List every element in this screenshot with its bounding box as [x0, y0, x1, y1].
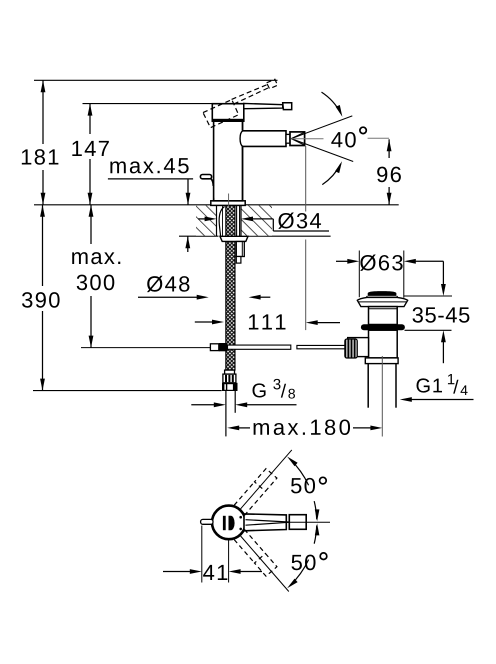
lever grip (top view) [289, 515, 306, 530]
cap thick bottom edge [212, 119, 244, 122]
spout [243, 131, 287, 147]
dimension max.45 [110, 161, 125, 173]
dimension O63 [336, 260, 348, 262]
dashed cap (raised position) [203, 100, 239, 128]
deck top line [34, 204, 399, 206]
lever grip tip [283, 103, 292, 110]
390 bottom reference line [33, 390, 222, 392]
dimension 390 [42, 205, 44, 286]
aerator [290, 132, 305, 146]
lever centerline extension (rotated) [241, 450, 292, 509]
deck hatching left [196, 206, 217, 236]
pop-up rod guide bracket [236, 242, 244, 257]
label G3/8 [253, 383, 266, 397]
tailpiece [367, 364, 369, 408]
faucet body [214, 121, 243, 201]
horizontal pop-up rod [228, 345, 291, 349]
drain body upper [369, 307, 398, 325]
aerator spray V [291, 132, 304, 138]
40-degree spray lines [291, 116, 352, 139]
pop-up rod joint on hose [210, 344, 218, 351]
dashed lever lower (50 deg) [244, 529, 264, 552]
faucet cap (handle base) [212, 104, 244, 122]
drain O63 extension lines [358, 251, 360, 298]
top reference line (raised lever max height) [34, 79, 278, 81]
coupling nut [365, 358, 398, 364]
147 reference line (cap top) [83, 103, 213, 105]
35-45 reference lines [404, 295, 452, 297]
label 50 deg lower [291, 555, 301, 570]
dimension O34 (hole) [198, 218, 205, 220]
cartridge D-shape [223, 516, 226, 530]
drain pop-up knob [368, 291, 397, 296]
dashed lever upper (50 deg) [244, 492, 264, 515]
label 50 deg upper [291, 478, 301, 493]
dimension 41 [201, 526, 203, 583]
dimension O48 [147, 276, 163, 292]
faucet flange on deck [211, 201, 245, 206]
hole edges in deck [216, 205, 218, 236]
dimension 111 leader [195, 321, 213, 323]
dimension 35-45 [442, 261, 444, 284]
dimension max.180 [227, 426, 239, 431]
label 40 deg [331, 132, 342, 147]
dimension 147 [89, 104, 91, 134]
spray centerline (gray) [291, 138, 323, 140]
dimension max. 300 [90, 205, 92, 244]
lever bar (top view) [244, 514, 286, 531]
deck hatching right [241, 206, 272, 236]
dimension 96 [388, 139, 390, 158]
lever centerline extension (rotated) [241, 536, 289, 592]
G3/8 nut [222, 383, 238, 391]
label G1 1/4 [417, 378, 430, 392]
pop-up tab (left) [201, 519, 213, 524]
pop-up rod tube in hole [236, 205, 238, 236]
aerator neck [286, 134, 290, 143]
drain body lower [369, 330, 398, 358]
lever handle (horizontal) [244, 103, 283, 108]
threaded shank (knurled) through deck [226, 205, 235, 370]
hose crimp sleeve [223, 374, 236, 383]
drain gasket (seal) [361, 324, 405, 330]
top view: faucet body circle [212, 506, 246, 540]
drain centerline [381, 356, 383, 437]
50-deg arc upper [290, 459, 309, 485]
supply tube [225, 391, 227, 437]
lever centerline extension [285, 521, 330, 523]
mounting nut below deck [220, 236, 248, 241]
spout-tip projection line [305, 146, 307, 212]
50-deg arc lower [290, 560, 309, 586]
pop-up lever hook on body [200, 175, 211, 179]
body centerline [228, 194, 230, 207]
hose collar [225, 370, 235, 374]
deck bottom line [179, 235, 219, 237]
knurled adjuster knob [345, 339, 357, 358]
rod reference line to max300 [81, 347, 210, 349]
G3/8 arrows [191, 404, 214, 406]
40-degree arcs with arrows [322, 92, 341, 113]
dimension 181 [42, 80, 44, 144]
drain flange [357, 297, 407, 306]
anchor wedge in hole [219, 207, 224, 237]
side port [348, 338, 369, 357]
screw dots [239, 516, 242, 519]
G1 1/4 leader [400, 397, 412, 402]
dashed lever (raised position) [232, 85, 268, 100]
